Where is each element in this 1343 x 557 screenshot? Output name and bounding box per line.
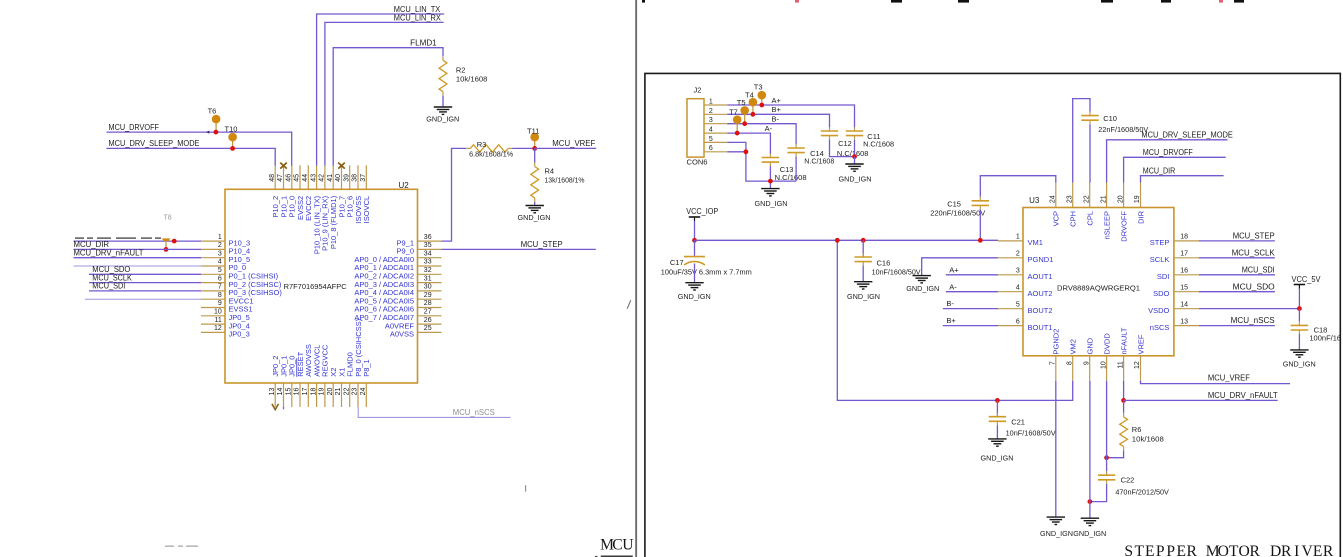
- svg-text:C17: C17: [670, 258, 684, 267]
- net label MCU_SCLK: [92, 273, 132, 282]
- J2 pin 4: [704, 127, 727, 134]
- left sheet title MCU: [600, 536, 633, 553]
- svg-text:22: 22: [343, 388, 350, 396]
- U3 pin 20 DRVOFF: [1117, 183, 1128, 242]
- svg-text:40: 40: [335, 174, 342, 182]
- net label MCU_DIR: [74, 240, 110, 249]
- junction C11 gnd: [852, 154, 857, 159]
- junction nFAULT: [1121, 398, 1126, 403]
- ground GND_IGN pin9: [1073, 518, 1106, 538]
- ground GND_IGN PGND1: [906, 276, 939, 293]
- svg-text:C10: C10: [1103, 114, 1117, 123]
- svg-text:PGND1: PGND1: [1028, 255, 1054, 264]
- U2 pin 14 JP0_1: [277, 356, 288, 407]
- svg-text:GND_IGN: GND_IGN: [426, 114, 459, 123]
- left sheet right border: [635, 0, 637, 557]
- svg-text:34: 34: [424, 250, 432, 257]
- svg-text:MCU_SDO: MCU_SDO: [1233, 282, 1275, 291]
- svg-text:DRVOFF: DRVOFF: [1119, 211, 1128, 242]
- U2 pin 13 JP0_2: [269, 356, 280, 407]
- svg-text:DIR: DIR: [1136, 210, 1145, 224]
- svg-text:42: 42: [319, 174, 326, 182]
- wire R6 to DVDD net: [1107, 451, 1124, 458]
- wire C21 lead: [996, 400, 998, 416]
- svg-text:3: 3: [709, 117, 713, 124]
- wire C17 lead: [694, 240, 696, 256]
- U3 pin 13 nSCS: [1150, 318, 1199, 332]
- U3 pin 11 nFAULT: [1117, 327, 1128, 381]
- svg-text:37: 37: [360, 174, 367, 182]
- U2 pin 16 RESET: [294, 351, 305, 407]
- cropped text remnants top edge: [642, 0, 1244, 3]
- R4 labels: [545, 167, 585, 185]
- faded label row1: [75, 237, 161, 238]
- svg-text:B+: B+: [946, 316, 956, 325]
- svg-text:10k/1608: 10k/1608: [456, 74, 488, 83]
- svg-text:100uF/35V 6.3mm x 7.7mm: 100uF/35V 6.3mm x 7.7mm: [661, 267, 752, 276]
- svg-text:18: 18: [310, 388, 317, 396]
- svg-text:24: 24: [1050, 195, 1057, 203]
- svg-text:6.8k/1608/1%: 6.8k/1608/1%: [469, 149, 513, 158]
- junction C16: [861, 238, 866, 243]
- svg-text:GND_IGN: GND_IGN: [1073, 529, 1106, 538]
- U2 pin 28 AP0_6 / ADCA0I6: [354, 300, 441, 314]
- svg-text:MCU_DRVOFF: MCU_DRVOFF: [109, 123, 160, 132]
- net label B- pin5: [946, 299, 954, 308]
- net label MCU_DRV_nFAULT right: [1208, 391, 1278, 400]
- net label MCU_LIN_RX: [394, 13, 442, 22]
- wire AOUT2 A-: [946, 291, 998, 293]
- svg-text:T5: T5: [737, 98, 746, 107]
- wire MCU_STEP: [1199, 240, 1275, 242]
- U2 pin 6 P0_2 (CSIHSC): [201, 275, 282, 289]
- wire C15 to rail: [979, 209, 981, 240]
- svg-text:P8_1: P8_1: [362, 359, 371, 377]
- wire pin3 MCU_DRV_nFAULT: [74, 257, 202, 259]
- U2 pin 32 AP0_2 / ADCA0I2: [354, 267, 441, 281]
- net label A-: [765, 124, 773, 133]
- svg-text:11: 11: [1117, 361, 1124, 368]
- U2 pin 23 P8_0 (CSIHCSS): [352, 318, 363, 407]
- wire J2 pin6: [727, 151, 746, 153]
- wire pin2 MCU_DIR: [74, 248, 202, 250]
- svg-text:10k/1608: 10k/1608: [1132, 435, 1164, 444]
- stray tick: [525, 485, 527, 491]
- U2 pin 4 P0_0: [201, 259, 246, 273]
- wire MCU_DRVOFF right: [1124, 157, 1226, 182]
- wire C16 lead: [862, 240, 864, 257]
- wire J2 pin5 gnd rail: [727, 142, 796, 181]
- wire pin7 MCU_SDI: [89, 290, 201, 292]
- svg-text:7: 7: [218, 284, 222, 291]
- svg-text:MCU_DRV_SLEEP_MODE: MCU_DRV_SLEEP_MODE: [1141, 130, 1233, 139]
- J2 pin 3: [704, 117, 727, 124]
- wire T11 to R4: [534, 148, 536, 162]
- wire to gnd C11: [854, 157, 856, 164]
- junction T5: [742, 121, 747, 126]
- net label MCU_DRVOFF right: [1143, 148, 1193, 157]
- U3 part number DRV8889AQWRGERQ1: [1057, 284, 1140, 293]
- net label B+: [772, 105, 782, 114]
- svg-text:GND_IGN: GND_IGN: [518, 213, 551, 222]
- ground GND_IGN below C18: [1283, 350, 1316, 369]
- U2 pin 40 P10_7: [335, 165, 346, 217]
- svg-text:MCU_SDI: MCU_SDI: [92, 282, 125, 291]
- U2 pin 29 AP0_5 / ADCA0I5: [354, 292, 441, 306]
- svg-text:5: 5: [709, 136, 713, 143]
- U2 pin 21 X1: [335, 368, 346, 407]
- svg-text:4: 4: [218, 259, 222, 266]
- svg-text:10: 10: [1100, 361, 1107, 369]
- wire VSDO to VCC_5V: [1199, 308, 1300, 310]
- wire MCU_LIN_TX: [317, 14, 445, 166]
- svg-text:SDI: SDI: [1157, 272, 1170, 281]
- wire R3 to T11: [512, 147, 535, 149]
- connector J2 body: [687, 99, 704, 157]
- J2 refdes: [694, 86, 702, 95]
- R3 labels: [469, 140, 513, 158]
- ground GND_IGN pin7: [1040, 517, 1073, 538]
- svg-text:25: 25: [424, 325, 432, 332]
- svg-text:CPL: CPL: [1086, 211, 1095, 226]
- testpoint T4: [745, 90, 757, 114]
- svg-text:MCU_DIR: MCU_DIR: [1143, 166, 1176, 175]
- U2 pin 15 JP0_0: [286, 356, 297, 407]
- svg-text:10: 10: [214, 309, 222, 316]
- svg-text:T11: T11: [527, 127, 539, 136]
- J2 pin 2: [704, 108, 727, 115]
- net label MCU_SDO: [1233, 282, 1275, 291]
- junction T10: [230, 146, 235, 151]
- svg-text:13k/1608/1%: 13k/1608/1%: [545, 175, 585, 184]
- svg-text:GND_IGN: GND_IGN: [981, 454, 1014, 463]
- U2 pin 26 A0VREF: [385, 317, 442, 331]
- ground GND_IGN below C11: [839, 164, 872, 184]
- U2 pin 19 REGVCC: [319, 344, 330, 407]
- svg-text:20: 20: [327, 388, 334, 396]
- svg-text:GND_IGN: GND_IGN: [755, 199, 788, 208]
- svg-text:2: 2: [709, 108, 713, 115]
- wire B+ net: [727, 114, 829, 127]
- net label MCU_SDI: [1242, 265, 1275, 274]
- svg-text:R3: R3: [477, 140, 487, 149]
- C18 labels: [1309, 326, 1341, 343]
- wire MCU_DRV_SLEEP_MODE: [107, 148, 276, 165]
- wire pin36 riser: [442, 148, 467, 241]
- wire C18 gnd: [1298, 334, 1300, 350]
- svg-text:36: 36: [424, 234, 432, 241]
- U2 pin 3 P10_5: [201, 250, 250, 264]
- capacitor C15: [972, 197, 989, 210]
- svg-text:19: 19: [1134, 195, 1141, 203]
- resistor R6: [1120, 413, 1128, 451]
- U2 pin 31 AP0_3 / ADCA0I3: [354, 275, 441, 289]
- C21 labels: [1006, 418, 1056, 438]
- U2 pin 25 A0VSS: [390, 325, 442, 339]
- wire C10 to CPL: [1089, 124, 1091, 182]
- wire AOUT1 A+: [946, 274, 998, 276]
- svg-text:22: 22: [1083, 195, 1090, 203]
- net label MCU_DRV_nFAULT: [74, 248, 144, 257]
- svg-text:41: 41: [327, 174, 334, 182]
- svg-text:T8: T8: [164, 215, 172, 222]
- U3 pin 21 nSLEEP: [1100, 183, 1111, 240]
- off-page arrow pin13: [272, 404, 279, 410]
- svg-text:U3: U3: [1029, 196, 1040, 205]
- wire R2 to ground: [442, 96, 444, 107]
- svg-text:6: 6: [709, 145, 713, 152]
- svg-text:STEP: STEP: [1150, 238, 1170, 247]
- junction T4: [751, 112, 756, 117]
- capacitor C21: [989, 413, 1006, 426]
- U3 pin 14 VSDO: [1148, 301, 1199, 315]
- R2 labels: [456, 66, 488, 84]
- testpoint T10: [225, 125, 238, 149]
- svg-text:4: 4: [709, 127, 713, 134]
- junction R6 DVDD: [1104, 455, 1109, 460]
- wire PGND2 drop: [1055, 381, 1057, 517]
- svg-text:A+: A+: [772, 96, 782, 105]
- junction VM rail VM2: [835, 238, 840, 243]
- U2 pin 46 P10_0: [286, 165, 297, 217]
- wire MCU_DRVOFF: [107, 132, 292, 166]
- wire VM2 run: [837, 240, 1072, 400]
- U3 pin 6 BOUT1: [998, 318, 1053, 332]
- stub pin14: [283, 407, 285, 409]
- U2 pin 39 P10_6: [343, 165, 354, 217]
- svg-text:VM2: VM2: [1069, 339, 1078, 354]
- svg-text:9: 9: [218, 300, 222, 307]
- testpoint T6: [208, 106, 221, 132]
- svg-text:PGND2: PGND2: [1052, 329, 1061, 355]
- driver U3 body: [1023, 208, 1174, 356]
- J2 pin 1: [704, 98, 727, 105]
- svg-text:1: 1: [1016, 234, 1020, 241]
- U3 pin 3 AOUT1: [998, 268, 1053, 282]
- svg-text:C15: C15: [947, 199, 961, 208]
- svg-text:nSCS: nSCS: [1150, 323, 1170, 332]
- svg-text:21: 21: [335, 388, 342, 396]
- svg-text:GND_IGN: GND_IGN: [678, 292, 711, 301]
- svg-text:15: 15: [286, 388, 293, 396]
- svg-text:STEPPER MOTOR DRIVER: STEPPER MOTOR DRIVER: [1124, 543, 1334, 557]
- J2 value CON6: [687, 157, 708, 166]
- R6 labels: [1132, 425, 1164, 444]
- svg-text:GND_IGN: GND_IGN: [906, 284, 939, 293]
- svg-text:C16: C16: [877, 258, 891, 267]
- svg-text:VSDO: VSDO: [1148, 306, 1169, 315]
- svg-text:A-: A-: [949, 282, 957, 291]
- svg-text:VREF: VREF: [1136, 334, 1145, 354]
- net label FLMD1: [410, 38, 437, 47]
- wire pin23 MCU_nSCS: [358, 407, 510, 417]
- C14 labels: [804, 149, 834, 166]
- svg-text:33: 33: [424, 259, 432, 266]
- svg-text:N.C/1608: N.C/1608: [863, 139, 894, 148]
- svg-text:GND_IGN: GND_IGN: [1040, 529, 1073, 538]
- svg-text:VCP: VCP: [1052, 211, 1061, 226]
- svg-text:13: 13: [269, 388, 276, 396]
- testpoint T11: [527, 127, 539, 149]
- wire MCU_VREF right: [1141, 381, 1291, 384]
- svg-text:C22: C22: [1121, 476, 1135, 485]
- net label MCU_LIN_TX: [394, 5, 441, 14]
- net label MCU_nSCS: [1231, 316, 1275, 325]
- power VCC_5V: [1292, 275, 1322, 288]
- svg-text:nFAULT: nFAULT: [1119, 327, 1128, 354]
- svg-text:R6: R6: [1132, 425, 1142, 434]
- svg-text:24: 24: [360, 388, 367, 396]
- svg-text:17: 17: [1180, 251, 1188, 258]
- wire MCU_VREF left: [535, 147, 597, 149]
- wire MCU_SDO: [1199, 291, 1275, 293]
- net label A- pin4: [949, 282, 957, 291]
- wire pin4: [74, 265, 202, 267]
- junction VSDO: [1297, 306, 1302, 311]
- U3 pin 23 CPH: [1066, 183, 1077, 227]
- net label MCU_DRV_SLEEP_MODE right: [1141, 130, 1233, 139]
- svg-text:32: 32: [424, 267, 432, 274]
- svg-text:MCU_SCLK: MCU_SCLK: [1232, 248, 1276, 257]
- wire R4 to ground: [534, 202, 536, 206]
- junction C13 gnd: [768, 179, 773, 184]
- U3 pin 15 SDO: [1153, 284, 1199, 298]
- ground GND_IGN below C21: [981, 439, 1014, 463]
- junction T7: [735, 131, 740, 136]
- junction T3: [759, 103, 764, 108]
- svg-text:C21: C21: [1011, 418, 1025, 427]
- faded marks bottom left: [165, 545, 198, 547]
- junction pin2 T8: [164, 247, 169, 252]
- svg-text:MCU_nSCS: MCU_nSCS: [453, 408, 495, 417]
- U2 pin 11 JP0_4: [201, 317, 250, 331]
- U2 pin 7 P0_3 (CSIHSO): [201, 284, 282, 298]
- svg-text:9: 9: [1083, 361, 1090, 365]
- net label MCU_nSCS faded: [453, 408, 495, 417]
- svg-text:MCU_VREF: MCU_VREF: [552, 139, 595, 148]
- wire BOUT2 B-: [943, 308, 998, 310]
- wire pin35 MCU_STEP: [442, 248, 596, 250]
- wire MCU_SDI: [1199, 274, 1275, 276]
- svg-text:J2: J2: [694, 86, 702, 95]
- net label MCU_DRVOFF: [109, 123, 160, 132]
- svg-text:MCU_DRV_nFAULT: MCU_DRV_nFAULT: [74, 248, 144, 257]
- wire C21 gnd: [996, 425, 998, 439]
- wire PGND1: [922, 258, 998, 276]
- svg-text:T7: T7: [729, 108, 738, 117]
- U3 pin 12 VREF: [1134, 334, 1145, 381]
- U2 part number R7F7016954AFPC: [284, 282, 348, 291]
- svg-text:8: 8: [1066, 361, 1073, 365]
- svg-text:26: 26: [424, 317, 432, 324]
- U2 pin 8 EVCC1: [201, 292, 254, 306]
- svg-text:MCU_DRV_nFAULT: MCU_DRV_nFAULT: [1208, 391, 1278, 400]
- net label B+ pin6: [946, 316, 956, 325]
- net label MCU_DIR right: [1143, 166, 1176, 175]
- wire VCC_IOP drop: [694, 221, 696, 240]
- U3 pin 4 AOUT2: [998, 284, 1053, 298]
- capacitor C10: [1081, 112, 1098, 125]
- no-connect X pin47: [280, 163, 287, 169]
- svg-text:19: 19: [319, 388, 326, 396]
- svg-text:AOUT1: AOUT1: [1028, 272, 1053, 281]
- junction C22 GND: [1088, 499, 1093, 504]
- U3 pin 24 VCP: [1050, 183, 1061, 227]
- svg-text:6: 6: [1016, 318, 1020, 325]
- svg-text:10nF/1608/50V: 10nF/1608/50V: [1006, 429, 1056, 438]
- net label MCU_STEP: [1233, 232, 1275, 241]
- svg-text:A-: A-: [765, 124, 773, 133]
- svg-text:8: 8: [218, 292, 222, 299]
- svg-text:5: 5: [218, 267, 222, 274]
- svg-text:12: 12: [1134, 361, 1141, 369]
- no-connect X pin40: [338, 163, 345, 169]
- svg-text:2: 2: [1016, 251, 1020, 258]
- U3 pin 10 DVDD: [1100, 333, 1111, 381]
- U2 pin 5 P0_1 (CSIHSI): [201, 267, 279, 281]
- svg-text:VCC_5V: VCC_5V: [1292, 275, 1322, 284]
- svg-text:1: 1: [218, 234, 222, 241]
- U3 pin 1 VM1: [998, 234, 1043, 248]
- svg-text:SCLK: SCLK: [1150, 255, 1170, 264]
- svg-text:B+: B+: [772, 105, 782, 114]
- testpoint T5: [737, 98, 749, 124]
- C16 labels: [872, 258, 921, 276]
- svg-text:46: 46: [286, 174, 293, 182]
- svg-text:FLMD1: FLMD1: [410, 38, 437, 47]
- U2 pin 20 X2: [327, 368, 338, 407]
- capacitor C14: [787, 144, 804, 157]
- svg-text:13: 13: [1180, 318, 1188, 325]
- svg-text:17: 17: [302, 388, 309, 396]
- testpoint T7: [729, 108, 741, 134]
- ground GND_IGN below R4: [518, 206, 551, 222]
- junction pin1: [172, 239, 177, 244]
- U2 pin 47 P10_1: [277, 165, 288, 217]
- svg-text:12: 12: [214, 325, 222, 332]
- svg-text:T3: T3: [754, 82, 763, 91]
- svg-text:GND_IGN: GND_IGN: [847, 292, 880, 301]
- svg-text:DRV8889AQWRGERQ1: DRV8889AQWRGERQ1: [1057, 284, 1140, 293]
- svg-text:T4: T4: [745, 90, 754, 99]
- net label A+: [772, 96, 782, 105]
- U2 pin 1 P10_3: [201, 234, 250, 248]
- svg-text:MCU: MCU: [600, 536, 633, 553]
- U2 pin 45 EVSS2: [294, 165, 305, 220]
- U2 pin 38 ISOVSS: [352, 165, 363, 223]
- resistor R4: [531, 163, 539, 202]
- svg-text:1: 1: [709, 98, 713, 105]
- svg-text:29: 29: [424, 292, 432, 299]
- net label MCU_SDI: [92, 282, 125, 291]
- svg-text:11: 11: [215, 317, 222, 324]
- J2 pin 5: [704, 136, 727, 143]
- U2 pin 9 EVSS1: [201, 300, 253, 314]
- svg-text:VCC_IOP: VCC_IOP: [686, 207, 718, 216]
- svg-text:nSLEEP: nSLEEP: [1102, 211, 1111, 239]
- svg-text:16: 16: [294, 388, 301, 396]
- svg-text:23: 23: [352, 388, 359, 396]
- svg-text:DVDD: DVDD: [1102, 333, 1111, 355]
- junction C15: [978, 238, 983, 243]
- wire GND pin drop: [1089, 381, 1091, 518]
- wire pin5 MCU_SDO: [89, 273, 201, 275]
- capacitor C16: [855, 253, 872, 266]
- capacitor C22: [1098, 471, 1115, 484]
- svg-text:MCU_nSCS: MCU_nSCS: [1231, 316, 1275, 325]
- wire VM rail: [695, 239, 999, 241]
- junction T6: [214, 130, 219, 135]
